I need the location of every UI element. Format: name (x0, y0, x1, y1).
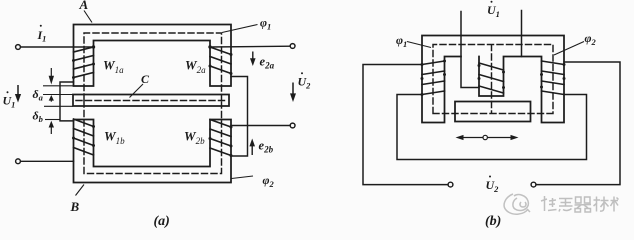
svg-text:W1b: W1b (104, 129, 125, 147)
terminal U2 left (448, 182, 453, 187)
primary feed wire left (461, 12, 479, 88)
winding W1a coil turns (74, 47, 94, 78)
winding W2b coil turns (210, 120, 231, 156)
wire: W2b top to right middle terminal (231, 125, 290, 127)
svg-text:U2: U2 (486, 178, 500, 194)
terminal U2 right (531, 182, 536, 187)
dimension arrow between armature lines (up) (50, 100, 52, 102)
wire: series link W1a-W1b left (60, 82, 74, 121)
leader phi2 b (554, 42, 584, 56)
svg-text:A: A (79, 0, 89, 12)
wire: output loop right (536, 62, 620, 185)
svg-text:φ1: φ1 (396, 33, 407, 49)
svg-text:e2a: e2a (260, 55, 275, 71)
winding middle leg fig b (479, 63, 504, 93)
leader A (84, 11, 92, 23)
svg-text:W2a: W2a (185, 58, 206, 76)
terminal right-top (290, 44, 295, 49)
wire: output loop left (363, 65, 448, 185)
svg-text:φ2: φ2 (585, 31, 597, 47)
svg-text:δb: δb (33, 109, 43, 125)
svg-text:W1a: W1a (103, 58, 124, 76)
arrow e2a (down) (250, 52, 256, 67)
svg-text:e2b: e2b (259, 139, 274, 155)
primary feed wire right (521, 11, 523, 57)
coil connection dots figure a (72, 45, 233, 157)
core A (top core, figure a) (74, 25, 232, 87)
terminal bottom-left (16, 159, 21, 164)
flux path phi2 dashed (84, 101, 222, 174)
flux dashed figure b (433, 45, 553, 114)
coil dots figure b (421, 60, 566, 97)
wire: secondary series loop (inner) (397, 95, 587, 160)
arrow U2 fig a (down) (290, 83, 296, 103)
svg-text:B: B (70, 199, 80, 214)
terminal right-middle (290, 123, 295, 128)
core figure b (422, 36, 564, 123)
svg-text:δa: δa (33, 87, 44, 103)
wire: I1 input to W1a (21, 46, 94, 48)
leader phi1 b (407, 42, 431, 48)
svg-text:W2b: W2b (184, 129, 205, 147)
svg-text:φ2: φ2 (263, 173, 275, 189)
dimension extension lines for gaps (43, 86, 74, 120)
svg-text:U2: U2 (298, 75, 312, 91)
winding W1b coil turns (74, 119, 94, 155)
dimension arrow delta-a top (down) (49, 68, 54, 134)
svg-text:U1: U1 (487, 3, 500, 19)
watermark logo swirl (504, 194, 530, 214)
leader phi2 fig a (232, 176, 254, 179)
leader phi1 (222, 25, 258, 33)
arrow e2b (up) (249, 139, 255, 156)
svg-text:(a): (a) (154, 214, 170, 229)
dimension arrow delta-b bottom (up) (50, 127, 52, 135)
svg-text:U1: U1 (3, 94, 16, 110)
motion arrow (double headed) under armature (456, 135, 519, 140)
wire: bottom-left terminal to W1b (21, 160, 74, 162)
wire: series link W2a-W2b right (231, 77, 248, 157)
winding left leg fig b (422, 61, 445, 95)
svg-text:φ1: φ1 (260, 16, 271, 32)
winding right leg fig b (542, 61, 565, 95)
leader B (76, 185, 85, 196)
core B (bottom core, figure a) (74, 120, 232, 183)
armature figure b (455, 102, 531, 122)
winding W2a coil turns (210, 47, 231, 74)
wire: W2a top to right terminal (210, 45, 290, 48)
leader C (130, 84, 144, 98)
watermark text: sensor-technology hanzi-like marks (541, 196, 619, 212)
arrow U1 (down) (15, 85, 21, 103)
svg-text:I1: I1 (37, 28, 47, 44)
svg-text:(b): (b) (485, 214, 501, 229)
armature C centerline (76, 100, 226, 102)
terminal top-left (16, 45, 21, 50)
flux path phi1 dashed (84, 33, 222, 100)
armature C bar (73, 95, 229, 107)
